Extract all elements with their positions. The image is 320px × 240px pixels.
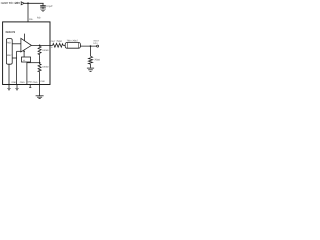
- wire RG1 pin stub: [8, 64, 10, 84]
- wire RF to junction: [39, 55, 41, 63]
- resistor RG1/RG2 internal block: [6, 39, 12, 65]
- resistor R2 750: [89, 56, 93, 64]
- node divider tap: [39, 45, 41, 47]
- svg-text:750Ω: 750Ω: [56, 40, 62, 43]
- svg-text:RS-: RS-: [37, 16, 41, 19]
- wire feedback to buffer block: [23, 51, 25, 57]
- node output junction: [90, 45, 92, 47]
- svg-text:RG1: RG1: [7, 42, 12, 45]
- terminal VOUT: [97, 45, 99, 47]
- svg-text:GND: GND: [11, 81, 16, 84]
- svg-text:MAX4172: MAX4172: [6, 30, 16, 34]
- wire RG1 to amp inverting input: [12, 43, 21, 45]
- ground GND pin main: [39, 84, 41, 95]
- resistor R1 750: [53, 43, 64, 47]
- wire amp noninverting input: [17, 50, 21, 52]
- wire amp output: [31, 44, 50, 46]
- wire cable to output node: [80, 45, 96, 47]
- svg-text:A1: A1: [23, 59, 25, 62]
- wire node to R2: [90, 46, 92, 56]
- node feedback junction: [23, 51, 25, 53]
- svg-text:8: 8: [51, 46, 52, 49]
- svg-text:100kΩ: 100kΩ: [42, 65, 49, 68]
- ground output: [87, 67, 94, 69]
- input terminal arrow: [21, 2, 24, 5]
- svg-text:100kΩ: 100kΩ: [42, 49, 49, 52]
- resistor RG: [38, 63, 41, 72]
- wire R2 to ground: [90, 64, 92, 68]
- ground pin3: [29, 84, 31, 87]
- wire ground return to GND pin: [16, 51, 18, 84]
- wire buffer to divider: [26, 62, 28, 84]
- svg-text:+4.5V TO +28V: +4.5V TO +28V: [0, 1, 20, 5]
- svg-text:GND: GND: [40, 80, 45, 83]
- wire OUT to R1: [50, 44, 53, 46]
- node junction on rail: [27, 2, 29, 4]
- wire amp supply: [24, 34, 26, 41]
- op-amp A1 triangle: [21, 38, 32, 52]
- op-amp U1 MAX4172 box: [3, 22, 50, 85]
- svg-text:TBD CABLE: TBD CABLE: [67, 40, 79, 43]
- svg-text:RS+: RS+: [29, 18, 34, 21]
- resistor RF: [38, 45, 41, 55]
- wire rail to RS+ pin: [27, 3, 29, 22]
- cable TBD CABLE: [65, 43, 80, 49]
- svg-text:RG2: RG2: [7, 54, 12, 57]
- svg-text:0-2V: 0-2V: [93, 42, 98, 45]
- node divider mid: [39, 62, 41, 64]
- wire RG2 tap: [12, 57, 16, 59]
- ground pin2: [16, 84, 18, 88]
- svg-text:GND: GND: [33, 81, 38, 84]
- capacitor C1 0.1uF: [42, 3, 44, 5]
- svg-text:GND: GND: [20, 81, 25, 84]
- svg-text:0.1µF: 0.1µF: [46, 5, 53, 8]
- wire RG to GND pin: [39, 72, 41, 85]
- svg-text:750Ω: 750Ω: [94, 58, 100, 61]
- wire R1 to cable: [63, 44, 65, 46]
- wire VIN rail: [24, 2, 43, 4]
- ground pin1: [8, 84, 10, 88]
- transistor Q1 buffer block: [22, 57, 31, 62]
- ground under C1: [40, 8, 46, 10]
